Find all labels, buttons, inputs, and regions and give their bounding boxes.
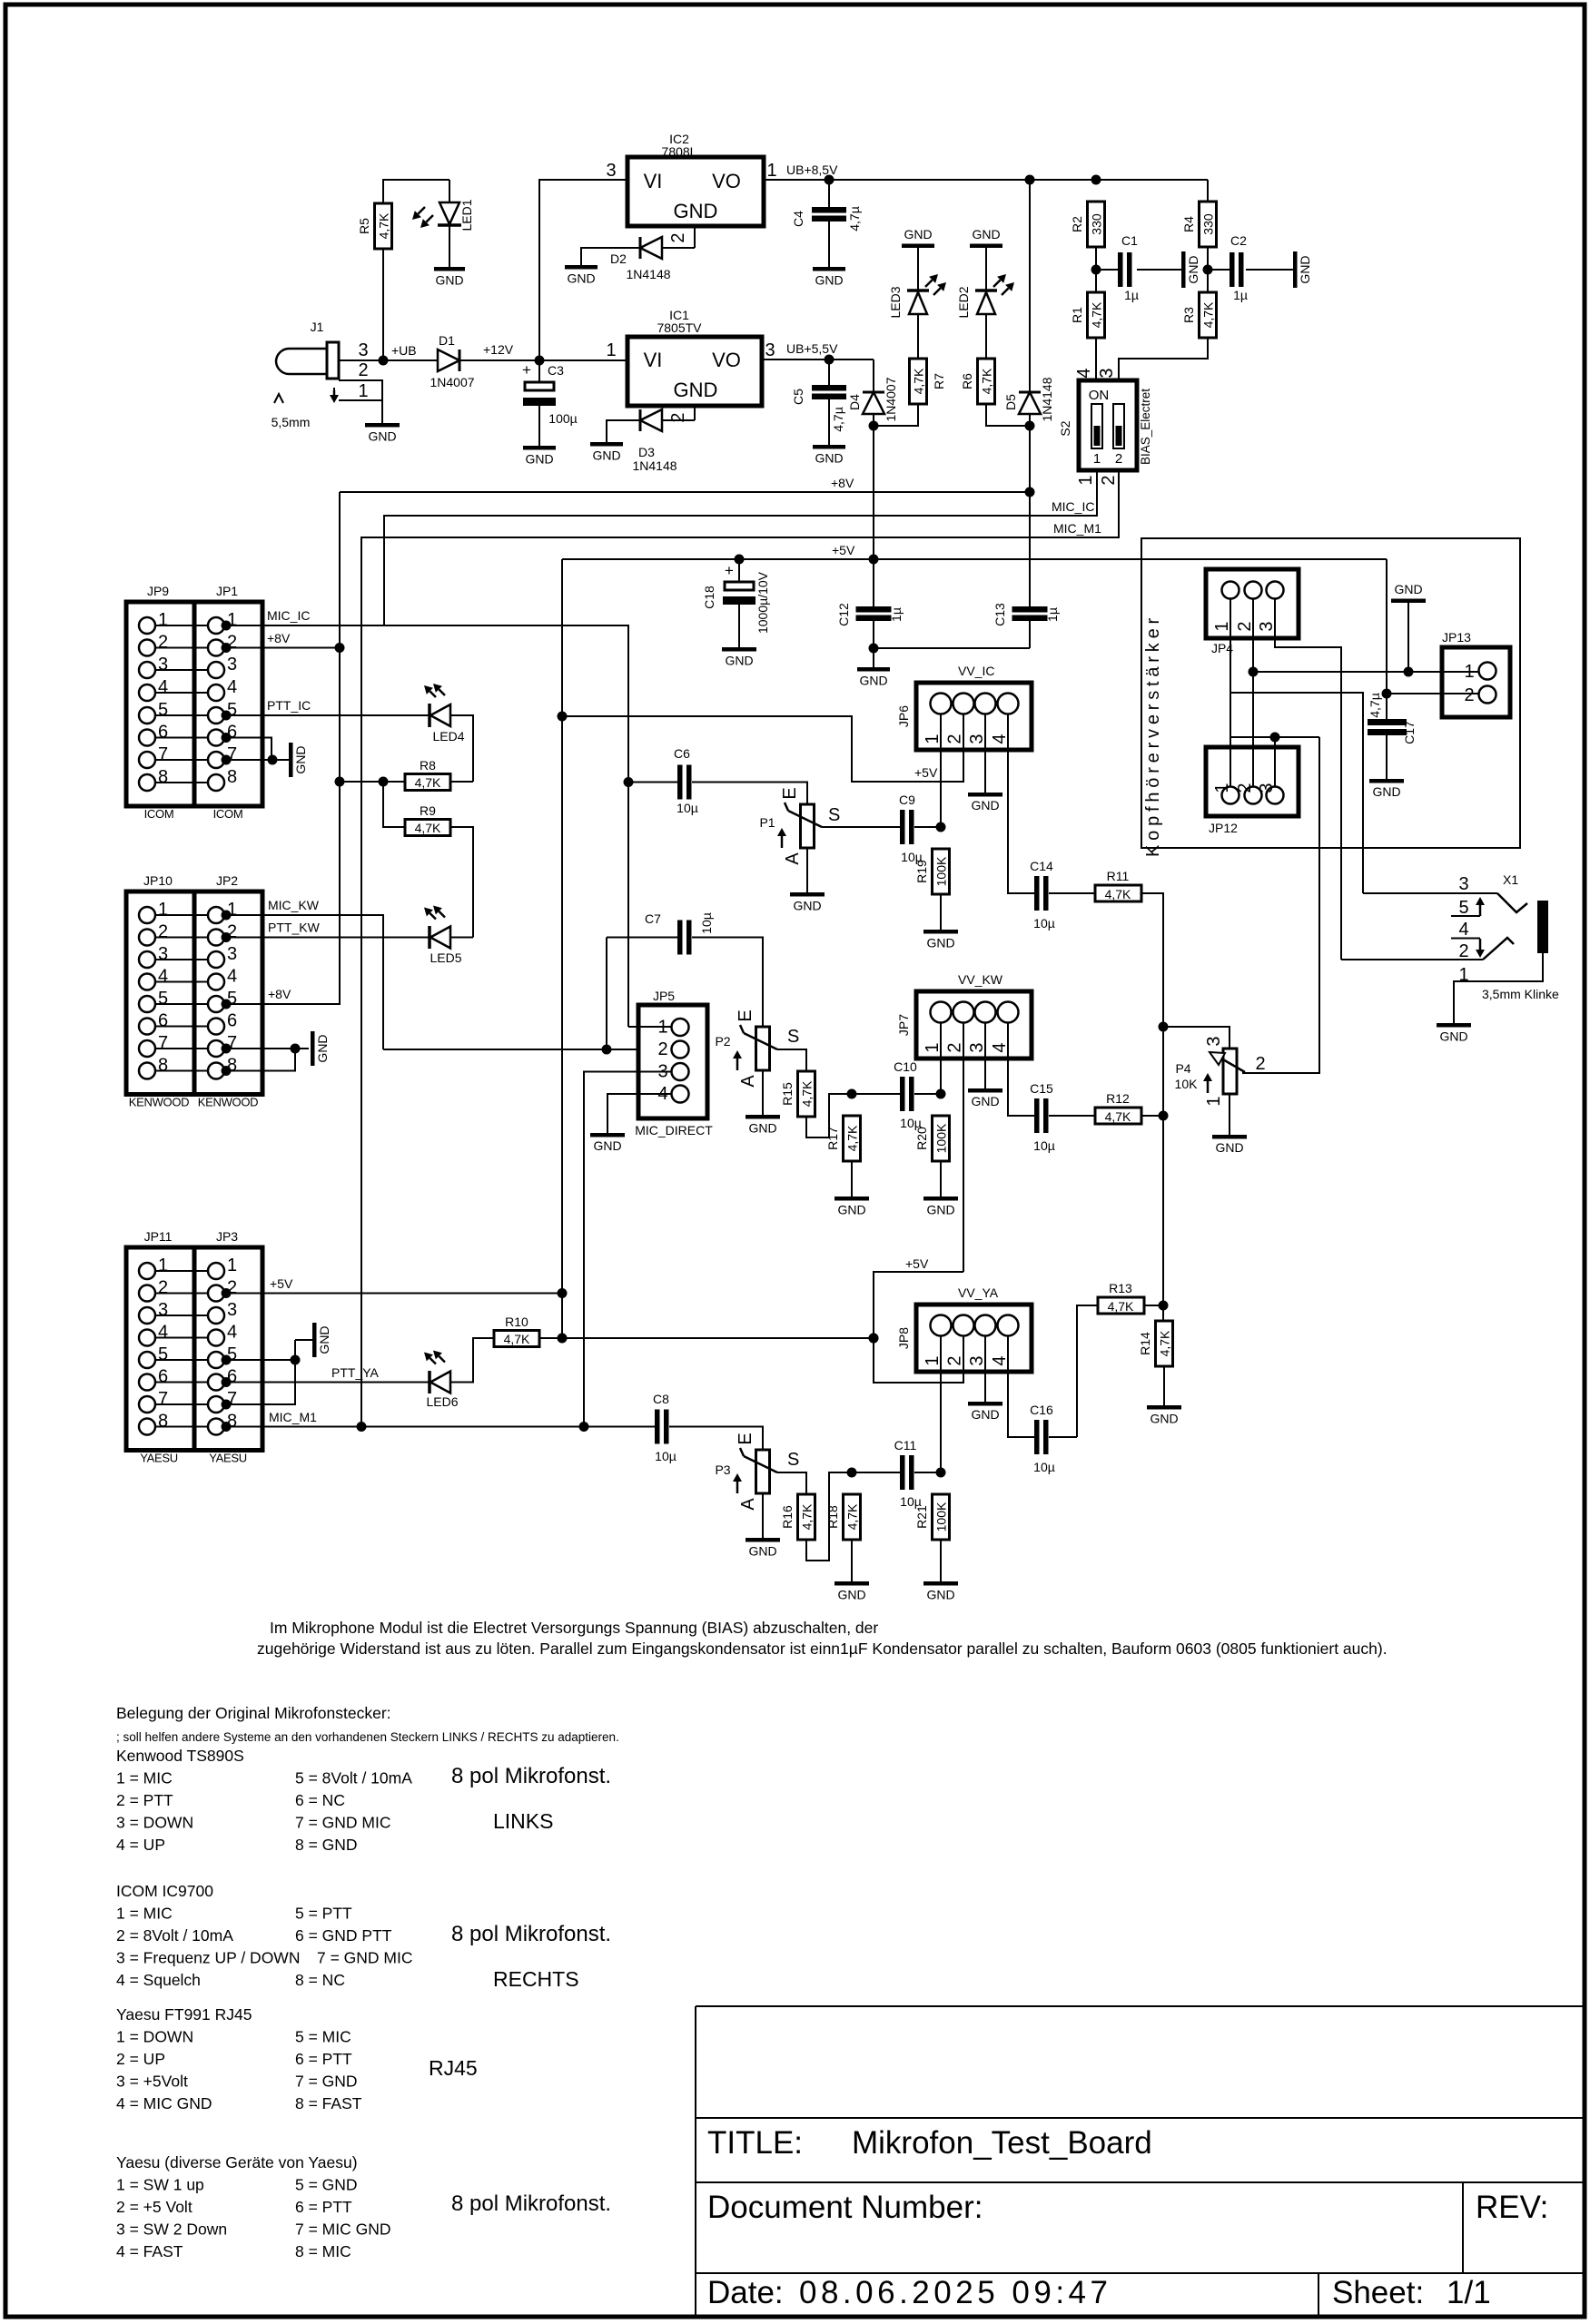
junction JP3 gnd bbox=[291, 1355, 301, 1365]
wire MIC_KW from JP2.1 bbox=[225, 915, 383, 1049]
svg-text:4: 4 bbox=[990, 734, 1010, 743]
svg-text:R16: R16 bbox=[780, 1505, 795, 1529]
junction MIC_M1 C8 bbox=[579, 1422, 589, 1432]
svg-text:1: 1 bbox=[606, 340, 616, 360]
svg-text:1: 1 bbox=[1076, 475, 1096, 485]
svg-text:2 = PTT: 2 = PTT bbox=[116, 1791, 173, 1809]
svg-text:1µ: 1µ bbox=[1124, 288, 1139, 302]
svg-text:GND: GND bbox=[674, 379, 718, 401]
svg-text:8 pol Mikrofonst.: 8 pol Mikrofonst. bbox=[451, 1764, 611, 1788]
svg-text:4,7K: 4,7K bbox=[1105, 887, 1131, 901]
wire JP3.5 gnd bbox=[225, 1359, 295, 1361]
wire J1 pin3 to +UB node bbox=[339, 359, 427, 361]
ground JP2 bbox=[311, 1031, 315, 1066]
svg-text:10µ: 10µ bbox=[1033, 1138, 1055, 1153]
junction C11/JP8.1 bbox=[936, 1468, 946, 1478]
junction R11/P4.3 bbox=[1159, 1022, 1169, 1032]
resistor R9 bbox=[405, 820, 450, 836]
resistor R3 bbox=[1200, 292, 1217, 338]
svg-text:8 pol Mikrofonst.: 8 pol Mikrofonst. bbox=[451, 1922, 611, 1946]
junction +5V YA column bbox=[869, 1334, 879, 1344]
svg-text:MIC_IC: MIC_IC bbox=[1052, 499, 1094, 514]
resistor R2 bbox=[1088, 202, 1105, 247]
junction C6 tap bbox=[624, 777, 634, 787]
svg-text:JP12: JP12 bbox=[1209, 821, 1238, 835]
capacitor C7 bbox=[677, 921, 683, 955]
wire R3 to S2 pin3 bbox=[1119, 338, 1208, 380]
wire PTT_KW from JP2.2 bbox=[225, 937, 430, 939]
svg-text:4,7µ: 4,7µ bbox=[847, 206, 862, 231]
capacitor C18 bbox=[738, 559, 740, 582]
svg-text:Mikrofon_Test_Board: Mikrofon_Test_Board bbox=[852, 2125, 1152, 2161]
svg-text:3: 3 bbox=[967, 1042, 987, 1052]
svg-text:3: 3 bbox=[1204, 1036, 1224, 1046]
svg-text:1: 1 bbox=[1093, 451, 1101, 467]
wire MIC_IC to JP5.1 bbox=[628, 1026, 671, 1028]
svg-text:+UB: +UB bbox=[391, 343, 417, 358]
svg-text:GND: GND bbox=[837, 1203, 865, 1217]
svg-text:S: S bbox=[828, 805, 840, 825]
svg-text:2 = +5 Volt: 2 = +5 Volt bbox=[116, 2198, 193, 2216]
title block frame bbox=[696, 2005, 1583, 2007]
svg-text:Document Number:: Document Number: bbox=[707, 2190, 983, 2225]
junction +5V feed bbox=[558, 712, 568, 722]
wire JP3.7 to gnd bbox=[225, 1360, 295, 1404]
svg-text:KENWOOD: KENWOOD bbox=[198, 1096, 259, 1109]
svg-text:LED3: LED3 bbox=[888, 286, 903, 318]
junction D4 bottom bbox=[869, 421, 879, 431]
svg-text:C13: C13 bbox=[993, 603, 1007, 626]
wire +5V to JP13.2 bbox=[1386, 559, 1388, 719]
wire IC2 VI input bbox=[539, 180, 627, 360]
capacitor C3 bbox=[538, 360, 540, 382]
capacitor C10 bbox=[900, 1077, 905, 1111]
svg-text:R5: R5 bbox=[357, 218, 371, 234]
svg-text:4,7K: 4,7K bbox=[800, 1503, 815, 1530]
svg-text:MIC_DIRECT: MIC_DIRECT bbox=[635, 1123, 713, 1137]
LED LED2 bbox=[975, 289, 997, 292]
resistor R12 bbox=[1095, 1108, 1141, 1124]
svg-text:REV:: REV: bbox=[1476, 2190, 1548, 2225]
svg-text:C14: C14 bbox=[1030, 859, 1053, 873]
svg-text:1N4148: 1N4148 bbox=[626, 267, 670, 281]
svg-text:JP3: JP3 bbox=[216, 1229, 238, 1244]
svg-text:4: 4 bbox=[990, 1355, 1010, 1365]
svg-text:+: + bbox=[725, 562, 734, 579]
ground P2 bbox=[762, 1070, 764, 1115]
svg-text:1: 1 bbox=[1458, 965, 1468, 985]
junction D5 column top bbox=[1025, 175, 1035, 185]
ground C5 bbox=[828, 444, 830, 445]
svg-text:P2: P2 bbox=[715, 1034, 730, 1049]
connector JP10/JP2 KENWOOD bbox=[126, 891, 194, 1095]
svg-text:JP13: JP13 bbox=[1442, 630, 1471, 645]
svg-text:C1: C1 bbox=[1121, 233, 1138, 248]
svg-text:C18: C18 bbox=[702, 586, 716, 609]
svg-text:JP2: JP2 bbox=[216, 873, 238, 888]
svg-text:6: 6 bbox=[227, 1011, 237, 1031]
svg-text:5 = MIC: 5 = MIC bbox=[295, 2028, 351, 2046]
svg-text:100K: 100K bbox=[934, 856, 949, 886]
svg-text:C15: C15 bbox=[1030, 1081, 1053, 1096]
wire JP7 pin2 +5V column bbox=[963, 1022, 964, 1272]
svg-text:GND: GND bbox=[435, 273, 463, 288]
svg-text:C9: C9 bbox=[899, 793, 915, 807]
svg-text:C3: C3 bbox=[548, 363, 564, 378]
svg-text:10µ: 10µ bbox=[676, 801, 698, 815]
svg-text:10µ: 10µ bbox=[1033, 916, 1055, 931]
svg-text:3: 3 bbox=[227, 1300, 237, 1320]
wire +12V to IC1 VI bbox=[539, 359, 627, 361]
wire +8V from JP1.2 bbox=[225, 647, 340, 649]
svg-text:BIAS_Electret: BIAS_Electret bbox=[1139, 389, 1152, 465]
svg-text:7805TV: 7805TV bbox=[657, 320, 702, 335]
wire +5V column left bbox=[561, 559, 563, 1338]
switch S2 BIAS_Electret bbox=[1079, 380, 1137, 470]
svg-text:PTT_YA: PTT_YA bbox=[331, 1365, 380, 1380]
svg-text:2: 2 bbox=[945, 734, 965, 743]
svg-text:1: 1 bbox=[1212, 621, 1232, 631]
svg-text:GND: GND bbox=[293, 745, 308, 773]
wire P3 wiper to R16 bbox=[777, 1472, 806, 1494]
junction R18 node bbox=[847, 1468, 857, 1478]
wire MIC_IC from JP1.1 bbox=[225, 625, 384, 626]
svg-text:4,7µ: 4,7µ bbox=[831, 407, 845, 432]
junction JP2 gnd bbox=[291, 1044, 301, 1054]
svg-text:1 = MIC: 1 = MIC bbox=[116, 1769, 173, 1787]
wire JP4.1 audio out bbox=[1230, 693, 1363, 893]
svg-text:4,7K: 4,7K bbox=[415, 775, 441, 790]
svg-text:P4: P4 bbox=[1175, 1061, 1190, 1076]
svg-text:MIC_KW: MIC_KW bbox=[268, 898, 320, 912]
svg-text:6: 6 bbox=[158, 1367, 168, 1387]
svg-text:VI: VI bbox=[644, 349, 663, 371]
svg-text:4,7K: 4,7K bbox=[845, 1125, 860, 1151]
ground R14 bbox=[1163, 1366, 1165, 1405]
ground JP8 bbox=[968, 1402, 1002, 1406]
svg-text:1000µ/10V: 1000µ/10V bbox=[755, 571, 770, 634]
svg-text:R13: R13 bbox=[1109, 1281, 1132, 1295]
svg-text:R9: R9 bbox=[420, 803, 436, 818]
svg-text:1µ: 1µ bbox=[1045, 607, 1060, 622]
box Kopfhoererverstaerker bbox=[1141, 538, 1520, 848]
svg-text:GND: GND bbox=[793, 899, 821, 913]
wire JP4.2 to JP12.2 bbox=[1252, 598, 1254, 786]
svg-text:4,7K: 4,7K bbox=[377, 212, 391, 239]
svg-text:100µ: 100µ bbox=[548, 411, 577, 426]
svg-text:JP5: JP5 bbox=[653, 989, 675, 1003]
resistor R6 bbox=[978, 359, 995, 404]
svg-text:D2: D2 bbox=[610, 251, 627, 266]
svg-text:3: 3 bbox=[1458, 874, 1468, 894]
ground JP1 bbox=[289, 743, 293, 777]
svg-text:1: 1 bbox=[1204, 1096, 1224, 1106]
capacitor C6 bbox=[677, 765, 683, 800]
svg-text:GND: GND bbox=[815, 273, 843, 288]
svg-text:GND: GND bbox=[1372, 784, 1400, 799]
svg-text:MIC_IC: MIC_IC bbox=[267, 608, 310, 623]
svg-text:2: 2 bbox=[945, 1355, 965, 1365]
svg-text:3: 3 bbox=[765, 340, 775, 360]
wire JP5.4 to gnd bbox=[607, 1094, 671, 1133]
svg-text:2: 2 bbox=[1235, 621, 1255, 631]
svg-text:5 = 8Volt / 10mA: 5 = 8Volt / 10mA bbox=[295, 1769, 412, 1787]
svg-text:GND: GND bbox=[1298, 255, 1312, 283]
svg-text:X1: X1 bbox=[1503, 872, 1518, 887]
resistor R16 bbox=[798, 1494, 815, 1540]
wire R9 column bbox=[383, 782, 405, 827]
wire D4 to +5V rail bbox=[873, 426, 874, 559]
svg-text:GND: GND bbox=[971, 1407, 999, 1422]
svg-text:JP9: JP9 bbox=[147, 584, 169, 598]
svg-text:4,7K: 4,7K bbox=[415, 821, 441, 835]
svg-text:R8: R8 bbox=[420, 758, 436, 773]
svg-text:2 = 8Volt / 10mA: 2 = 8Volt / 10mA bbox=[116, 1926, 233, 1945]
svg-text:4 = UP: 4 = UP bbox=[116, 1836, 165, 1854]
svg-text:GND: GND bbox=[748, 1544, 776, 1559]
ground R20 bbox=[940, 1161, 942, 1196]
wire P4 wiper to JP12.3 column bbox=[1242, 737, 1319, 1073]
junction +UB node bbox=[379, 356, 389, 366]
wire D2 anode to IC2 pin2 bbox=[662, 247, 695, 249]
wire S2 pin1 to MIC_IC bbox=[384, 470, 1097, 626]
svg-text:E: E bbox=[736, 1433, 755, 1444]
resistor R4 bbox=[1200, 202, 1217, 247]
wire node to P4.3 bbox=[1163, 1027, 1230, 1049]
svg-text:R14: R14 bbox=[1138, 1332, 1152, 1355]
svg-text:8: 8 bbox=[158, 1412, 168, 1432]
junction C12/C13 gnd bbox=[869, 644, 879, 654]
wire JP2.7 to gnd bbox=[225, 1048, 309, 1049]
svg-text:100K: 100K bbox=[934, 1502, 949, 1531]
wire +8V column down bbox=[339, 492, 341, 1003]
svg-text:Yaesu (diverse Geräte von Yaes: Yaesu (diverse Geräte von Yaesu) bbox=[116, 2153, 358, 2171]
wire JP13.2 bbox=[1387, 693, 1478, 694]
svg-text:UB+8,5V: UB+8,5V bbox=[786, 162, 838, 177]
svg-text:3: 3 bbox=[227, 944, 237, 964]
svg-text:ICOM IC9700: ICOM IC9700 bbox=[116, 1882, 213, 1900]
wire JP6 pin2 +5V bbox=[562, 714, 963, 782]
svg-text:+5V: +5V bbox=[270, 1276, 293, 1291]
capacitor C2 bbox=[1230, 252, 1235, 287]
wire JP6 pin3 gnd bbox=[984, 714, 986, 793]
wire R12 to node bbox=[1141, 1115, 1163, 1117]
svg-text:1N4007: 1N4007 bbox=[430, 375, 474, 389]
svg-text:2: 2 bbox=[1115, 451, 1122, 467]
ground C17 bbox=[1369, 779, 1404, 783]
wire JP7 pin4 to C15 bbox=[1008, 1022, 1034, 1116]
resistor R5 bbox=[375, 203, 392, 249]
junction JP12.3 bbox=[1270, 733, 1280, 743]
svg-text:R2: R2 bbox=[1070, 216, 1084, 232]
wire JP6 pin1 bbox=[940, 714, 942, 827]
junction +5V JP8 bbox=[869, 1334, 879, 1344]
wire PTT_IC from JP1.5 bbox=[225, 714, 430, 716]
svg-text:PTT_KW: PTT_KW bbox=[268, 921, 321, 935]
wire JP5.3 to MIC_M1 column bbox=[584, 1072, 671, 1427]
ground Kopfhoerer bbox=[1407, 603, 1409, 672]
wire R16 to node bbox=[806, 1472, 900, 1561]
ground LED2 bbox=[985, 248, 987, 290]
svg-text:MIC_M1: MIC_M1 bbox=[1053, 521, 1101, 536]
junction +5V D4 bbox=[869, 555, 879, 565]
svg-text:C12: C12 bbox=[836, 603, 851, 626]
svg-text:1: 1 bbox=[158, 900, 168, 920]
svg-text:E: E bbox=[736, 1009, 755, 1021]
resistor R21 bbox=[933, 1494, 950, 1540]
svg-text:C16: C16 bbox=[1030, 1403, 1053, 1417]
junction +5V JP13.2 bbox=[1382, 689, 1392, 699]
junction R17 node bbox=[847, 1089, 857, 1099]
junction D5 bottom bbox=[1025, 421, 1035, 431]
wire +8V from JP2.5 bbox=[225, 1003, 340, 1004]
svg-text:1/1: 1/1 bbox=[1447, 2275, 1491, 2310]
jack switch 5 bbox=[1451, 915, 1480, 917]
wire JP6 pin4 to C14 bbox=[1008, 714, 1034, 893]
resistor R18 bbox=[844, 1494, 861, 1540]
jack X1 ring contact bbox=[1483, 938, 1514, 960]
svg-text:6 = PTT: 6 = PTT bbox=[295, 2050, 352, 2068]
svg-text:1N4148: 1N4148 bbox=[632, 458, 676, 473]
svg-text:1: 1 bbox=[923, 734, 943, 743]
wire R6 to D5 bottom bbox=[986, 404, 1030, 426]
junction MIC_M1 column bbox=[357, 1422, 367, 1432]
wire +5V rail bbox=[562, 558, 1387, 560]
svg-text:1: 1 bbox=[358, 381, 368, 401]
svg-text:C6: C6 bbox=[674, 746, 690, 761]
svg-text:7 = GND: 7 = GND bbox=[295, 2073, 358, 2091]
svg-text:TITLE:: TITLE: bbox=[707, 2125, 803, 2161]
svg-text:GND: GND bbox=[815, 451, 843, 466]
svg-text:4,7K: 4,7K bbox=[800, 1080, 815, 1107]
wire R9 to LED5 bbox=[450, 827, 473, 938]
svg-text:4: 4 bbox=[158, 1323, 168, 1343]
svg-text:4: 4 bbox=[158, 967, 168, 987]
svg-text:GND: GND bbox=[317, 1325, 331, 1354]
wire JP7 pin3 gnd bbox=[984, 1022, 986, 1088]
svg-text:VV_YA: VV_YA bbox=[958, 1285, 999, 1300]
svg-text:8: 8 bbox=[158, 767, 168, 787]
svg-text:1: 1 bbox=[923, 1355, 943, 1365]
svg-text:D5: D5 bbox=[1003, 394, 1018, 410]
svg-text:5: 5 bbox=[1458, 898, 1468, 918]
svg-text:LED5: LED5 bbox=[430, 950, 461, 965]
svg-text:8 = MIC: 8 = MIC bbox=[295, 2242, 351, 2260]
wire LED4 to R8 bbox=[450, 715, 473, 782]
wire IC2 GND pin2 bbox=[694, 226, 696, 248]
svg-text:R6: R6 bbox=[960, 373, 974, 389]
junction +8V JP1.2 bbox=[335, 643, 345, 653]
junction +12V node bbox=[535, 356, 545, 366]
svg-text:R21: R21 bbox=[914, 1505, 929, 1529]
svg-text:Yaesu FT991 RJ45: Yaesu FT991 RJ45 bbox=[116, 2005, 252, 2024]
svg-text:1 = MIC: 1 = MIC bbox=[116, 1905, 173, 1923]
svg-text:PTT_IC: PTT_IC bbox=[267, 698, 311, 713]
svg-text:LED4: LED4 bbox=[432, 729, 464, 743]
svg-text:3: 3 bbox=[158, 655, 168, 675]
svg-text:E: E bbox=[780, 787, 800, 799]
svg-text:2: 2 bbox=[668, 232, 688, 242]
svg-text:4,7K: 4,7K bbox=[1201, 301, 1216, 328]
resistor R7 bbox=[910, 359, 927, 404]
capacitor C4 bbox=[812, 207, 846, 213]
voltage regulator IC2 7808L bbox=[627, 157, 764, 226]
svg-text:3 = Frequenz UP / DOWN: 3 = Frequenz UP / DOWN bbox=[116, 1949, 300, 1967]
junction C5 tap bbox=[825, 355, 835, 365]
svg-text:RJ45: RJ45 bbox=[429, 2056, 478, 2080]
svg-text:10µ: 10µ bbox=[699, 912, 714, 934]
wire +5V from JP3.2 bbox=[225, 1293, 562, 1295]
capacitor C9 bbox=[900, 810, 905, 844]
svg-text:6 = NC: 6 = NC bbox=[295, 1791, 345, 1809]
wire D5 to +8V rail bbox=[1029, 426, 1031, 492]
ground C3 bbox=[538, 406, 540, 446]
svg-text:+8V: +8V bbox=[268, 987, 291, 1001]
svg-text:3 = SW 2 Down: 3 = SW 2 Down bbox=[116, 2221, 227, 2239]
svg-text:GND: GND bbox=[904, 227, 932, 241]
svg-text:R1: R1 bbox=[1070, 307, 1084, 323]
wire R10 to +5V line bbox=[539, 1337, 874, 1339]
capacitor C13 bbox=[1012, 606, 1048, 613]
svg-text:4: 4 bbox=[1458, 920, 1468, 940]
svg-text:330: 330 bbox=[1201, 213, 1216, 235]
junction +8V R8 bbox=[335, 777, 345, 787]
svg-text:1µ: 1µ bbox=[1233, 288, 1248, 302]
svg-text:ON: ON bbox=[1089, 388, 1110, 403]
voltage regulator IC1 7805TV bbox=[627, 337, 762, 406]
capacitor C12 bbox=[856, 606, 892, 613]
wire D3 anode to IC1 pin2 bbox=[662, 419, 695, 421]
svg-text:C17: C17 bbox=[1402, 721, 1417, 744]
svg-text:ICOM: ICOM bbox=[213, 807, 243, 821]
svg-text:8 = GND: 8 = GND bbox=[295, 1836, 358, 1854]
svg-text:YAESU: YAESU bbox=[209, 1452, 247, 1465]
svg-text:GND: GND bbox=[926, 1203, 954, 1217]
svg-text:4 = MIC GND: 4 = MIC GND bbox=[116, 2094, 212, 2112]
svg-text:7808L: 7808L bbox=[662, 144, 697, 159]
svg-text:GND: GND bbox=[567, 271, 595, 286]
wire R15 to node bbox=[806, 1094, 900, 1137]
svg-text:+8V: +8V bbox=[267, 631, 291, 645]
jack switch 4 bbox=[1451, 938, 1480, 940]
J1 tip arrow bbox=[333, 388, 335, 394]
svg-text:8: 8 bbox=[158, 1056, 168, 1076]
svg-text:5 = GND: 5 = GND bbox=[295, 2176, 358, 2194]
wire JP4.3 to X1 pin2 bbox=[1275, 598, 1341, 960]
svg-text:GND: GND bbox=[1215, 1140, 1243, 1155]
jack X1 pin3 wire bbox=[1363, 892, 1497, 894]
wire IC1 GND pin2 bbox=[694, 406, 696, 420]
capacitor C1 bbox=[1118, 252, 1123, 287]
capacitor C14 bbox=[1034, 876, 1040, 911]
svg-text:GND: GND bbox=[725, 654, 753, 668]
svg-text:1N4148: 1N4148 bbox=[1040, 377, 1054, 421]
LED LED5 bbox=[428, 926, 431, 949]
junction C10/JP7.1 bbox=[936, 1089, 946, 1099]
J1 pin2 stub bbox=[339, 380, 382, 400]
svg-text:R19: R19 bbox=[914, 860, 929, 883]
svg-text:JP11: JP11 bbox=[144, 1229, 173, 1244]
svg-text:GND: GND bbox=[926, 1588, 954, 1602]
jack X1 pin2 wire bbox=[1341, 959, 1483, 960]
svg-text:4,7K: 4,7K bbox=[1108, 1299, 1134, 1314]
svg-text:7 = GND MIC: 7 = GND MIC bbox=[295, 1814, 391, 1832]
svg-text:GND: GND bbox=[859, 674, 887, 688]
svg-text:S: S bbox=[787, 1450, 799, 1470]
trimmer P2 bbox=[756, 1027, 770, 1070]
wire MIC_KW to JP5.2 bbox=[383, 1049, 672, 1050]
svg-text:P3: P3 bbox=[715, 1462, 730, 1477]
